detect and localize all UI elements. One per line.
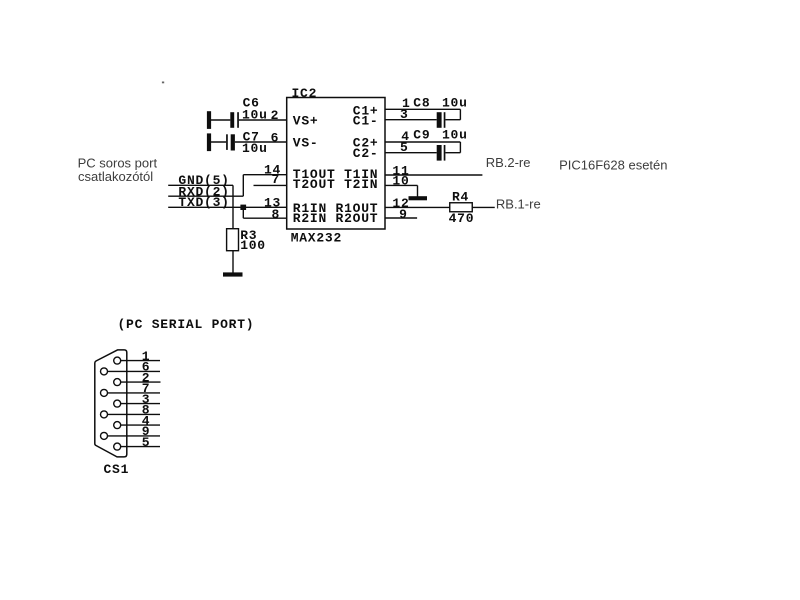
connector pin circle 4 [114, 422, 121, 429]
connector pin circle 9 [101, 432, 108, 439]
svg-text:C8: C8 [413, 95, 430, 110]
svg-text:csatlakozótól: csatlakozótól [78, 169, 153, 184]
wire connector pin 9 [108, 435, 161, 437]
wire connector pin 8 [108, 413, 161, 415]
svg-text:2: 2 [271, 108, 280, 123]
wire C6 ground to C6 [210, 119, 230, 121]
connector pin circle 8 [101, 411, 108, 418]
resistor R4 [450, 203, 473, 212]
svg-text:470: 470 [449, 211, 475, 226]
svg-text:10: 10 [392, 174, 409, 189]
svg-text:T2OUT T2IN: T2OUT T2IN [293, 177, 379, 192]
svg-text:10u: 10u [242, 107, 268, 122]
connector CS1 DB9 outline [95, 350, 127, 457]
svg-text:R4: R4 [452, 189, 469, 204]
wire connector pin 1 [121, 360, 160, 362]
capacitor C6 ground bar [207, 111, 211, 129]
wire connector pin 6 [108, 370, 161, 372]
svg-text:C9: C9 [413, 128, 430, 143]
wire GND(5) [168, 184, 233, 186]
wire connector pin 5 [121, 446, 160, 448]
wire C9 vertical [459, 142, 461, 153]
svg-text:RB.2-re: RB.2-re [486, 155, 531, 170]
svg-text:TXD(3): TXD(3) [178, 195, 229, 210]
ground bar below R3 [223, 272, 243, 276]
stray dot artifact [162, 82, 164, 84]
wire C7 ground to C7 [210, 141, 226, 143]
wire pin 1 [385, 108, 460, 110]
wire C9 to vertical [445, 152, 460, 154]
wire R4 to RB.1 [472, 206, 495, 208]
wire C8 to vertical [445, 119, 460, 121]
capacitor C9 thin plate [444, 145, 446, 161]
svg-text:5: 5 [400, 140, 409, 155]
capacitor C7 thin plate [226, 134, 228, 150]
capacitor C7 ground bar [207, 133, 211, 151]
wire junction vertical to pin 8 [242, 207, 244, 218]
svg-text:5: 5 [142, 435, 151, 450]
svg-text:8: 8 [272, 207, 281, 222]
capacitor C6 thin plate [237, 112, 239, 128]
wire connector pin 2 [121, 381, 161, 383]
wire RXD(2) [168, 195, 243, 197]
wire pin 5 to C9 [385, 152, 437, 154]
resistor R3 [227, 229, 239, 251]
wire pin 9 [385, 217, 417, 219]
svg-text:VS+: VS+ [293, 113, 319, 128]
svg-text:6: 6 [271, 130, 280, 145]
connector pin circle 3 [114, 400, 121, 407]
svg-text:10u: 10u [242, 141, 268, 156]
svg-text:C2-: C2- [353, 146, 379, 161]
wire connector pin 7 [108, 392, 161, 394]
capacitor C7 thick plate [231, 134, 235, 150]
wire pin 8 [243, 217, 287, 219]
svg-text:MAX232: MAX232 [291, 230, 342, 245]
wire pin 10 [385, 184, 418, 186]
svg-text:CS1: CS1 [104, 462, 130, 477]
junction dot TXD node [240, 205, 246, 210]
wire C8 vertical [459, 109, 461, 120]
svg-text:R2IN R2OUT: R2IN R2OUT [293, 211, 379, 226]
svg-text:IC2: IC2 [292, 86, 318, 101]
svg-text:C1-: C1- [353, 113, 379, 128]
wire pin 10 vertical to ground [417, 185, 419, 196]
wire C7 to pin 6 [235, 141, 287, 143]
wire pin 14 [243, 174, 287, 176]
connector pin circle 7 [101, 389, 108, 396]
svg-text:(PC SERIAL PORT): (PC SERIAL PORT) [118, 317, 255, 332]
svg-text:10u: 10u [442, 128, 468, 143]
wire pin 4 [385, 141, 460, 143]
svg-text:RB.1-re: RB.1-re [496, 196, 541, 211]
svg-text:7: 7 [272, 172, 281, 187]
connector pin circle 5 [114, 443, 121, 450]
capacitor C8 thin plate [444, 112, 446, 128]
svg-text:10u: 10u [442, 95, 468, 110]
wire pin 11 RB.2 [385, 174, 482, 176]
capacitor C9 thick plate [437, 145, 442, 161]
wire GND vertical to R3 [232, 185, 234, 229]
op IC2 MAX232 body [287, 98, 385, 230]
ground bar at pin 10 [409, 196, 428, 200]
wire C6 to pin 2 [239, 119, 287, 121]
wire RXD vertical up to pin 14 [242, 175, 244, 197]
svg-text:3: 3 [400, 107, 409, 122]
connector pin circle 2 [114, 379, 121, 386]
wire TXD(3) to pin 13 [168, 206, 287, 208]
svg-text:PIC16F628 esetén: PIC16F628 esetén [559, 158, 667, 173]
svg-text:9: 9 [399, 207, 408, 222]
wire pin 12 to R4 [385, 206, 450, 208]
capacitor C6 thick plate [230, 112, 234, 128]
wire connector pin 3 [121, 403, 160, 405]
capacitor C8 thick plate [437, 112, 442, 128]
connector pin circle 6 [101, 368, 108, 375]
wire connector pin 4 [121, 424, 160, 426]
wire R3 to ground [232, 251, 234, 273]
connector pin circle 1 [114, 357, 121, 364]
wire pin 3 to C8 [385, 119, 437, 121]
svg-text:VS-: VS- [293, 135, 319, 150]
wire pin 7 stub [254, 184, 288, 186]
svg-text:100: 100 [240, 238, 266, 253]
